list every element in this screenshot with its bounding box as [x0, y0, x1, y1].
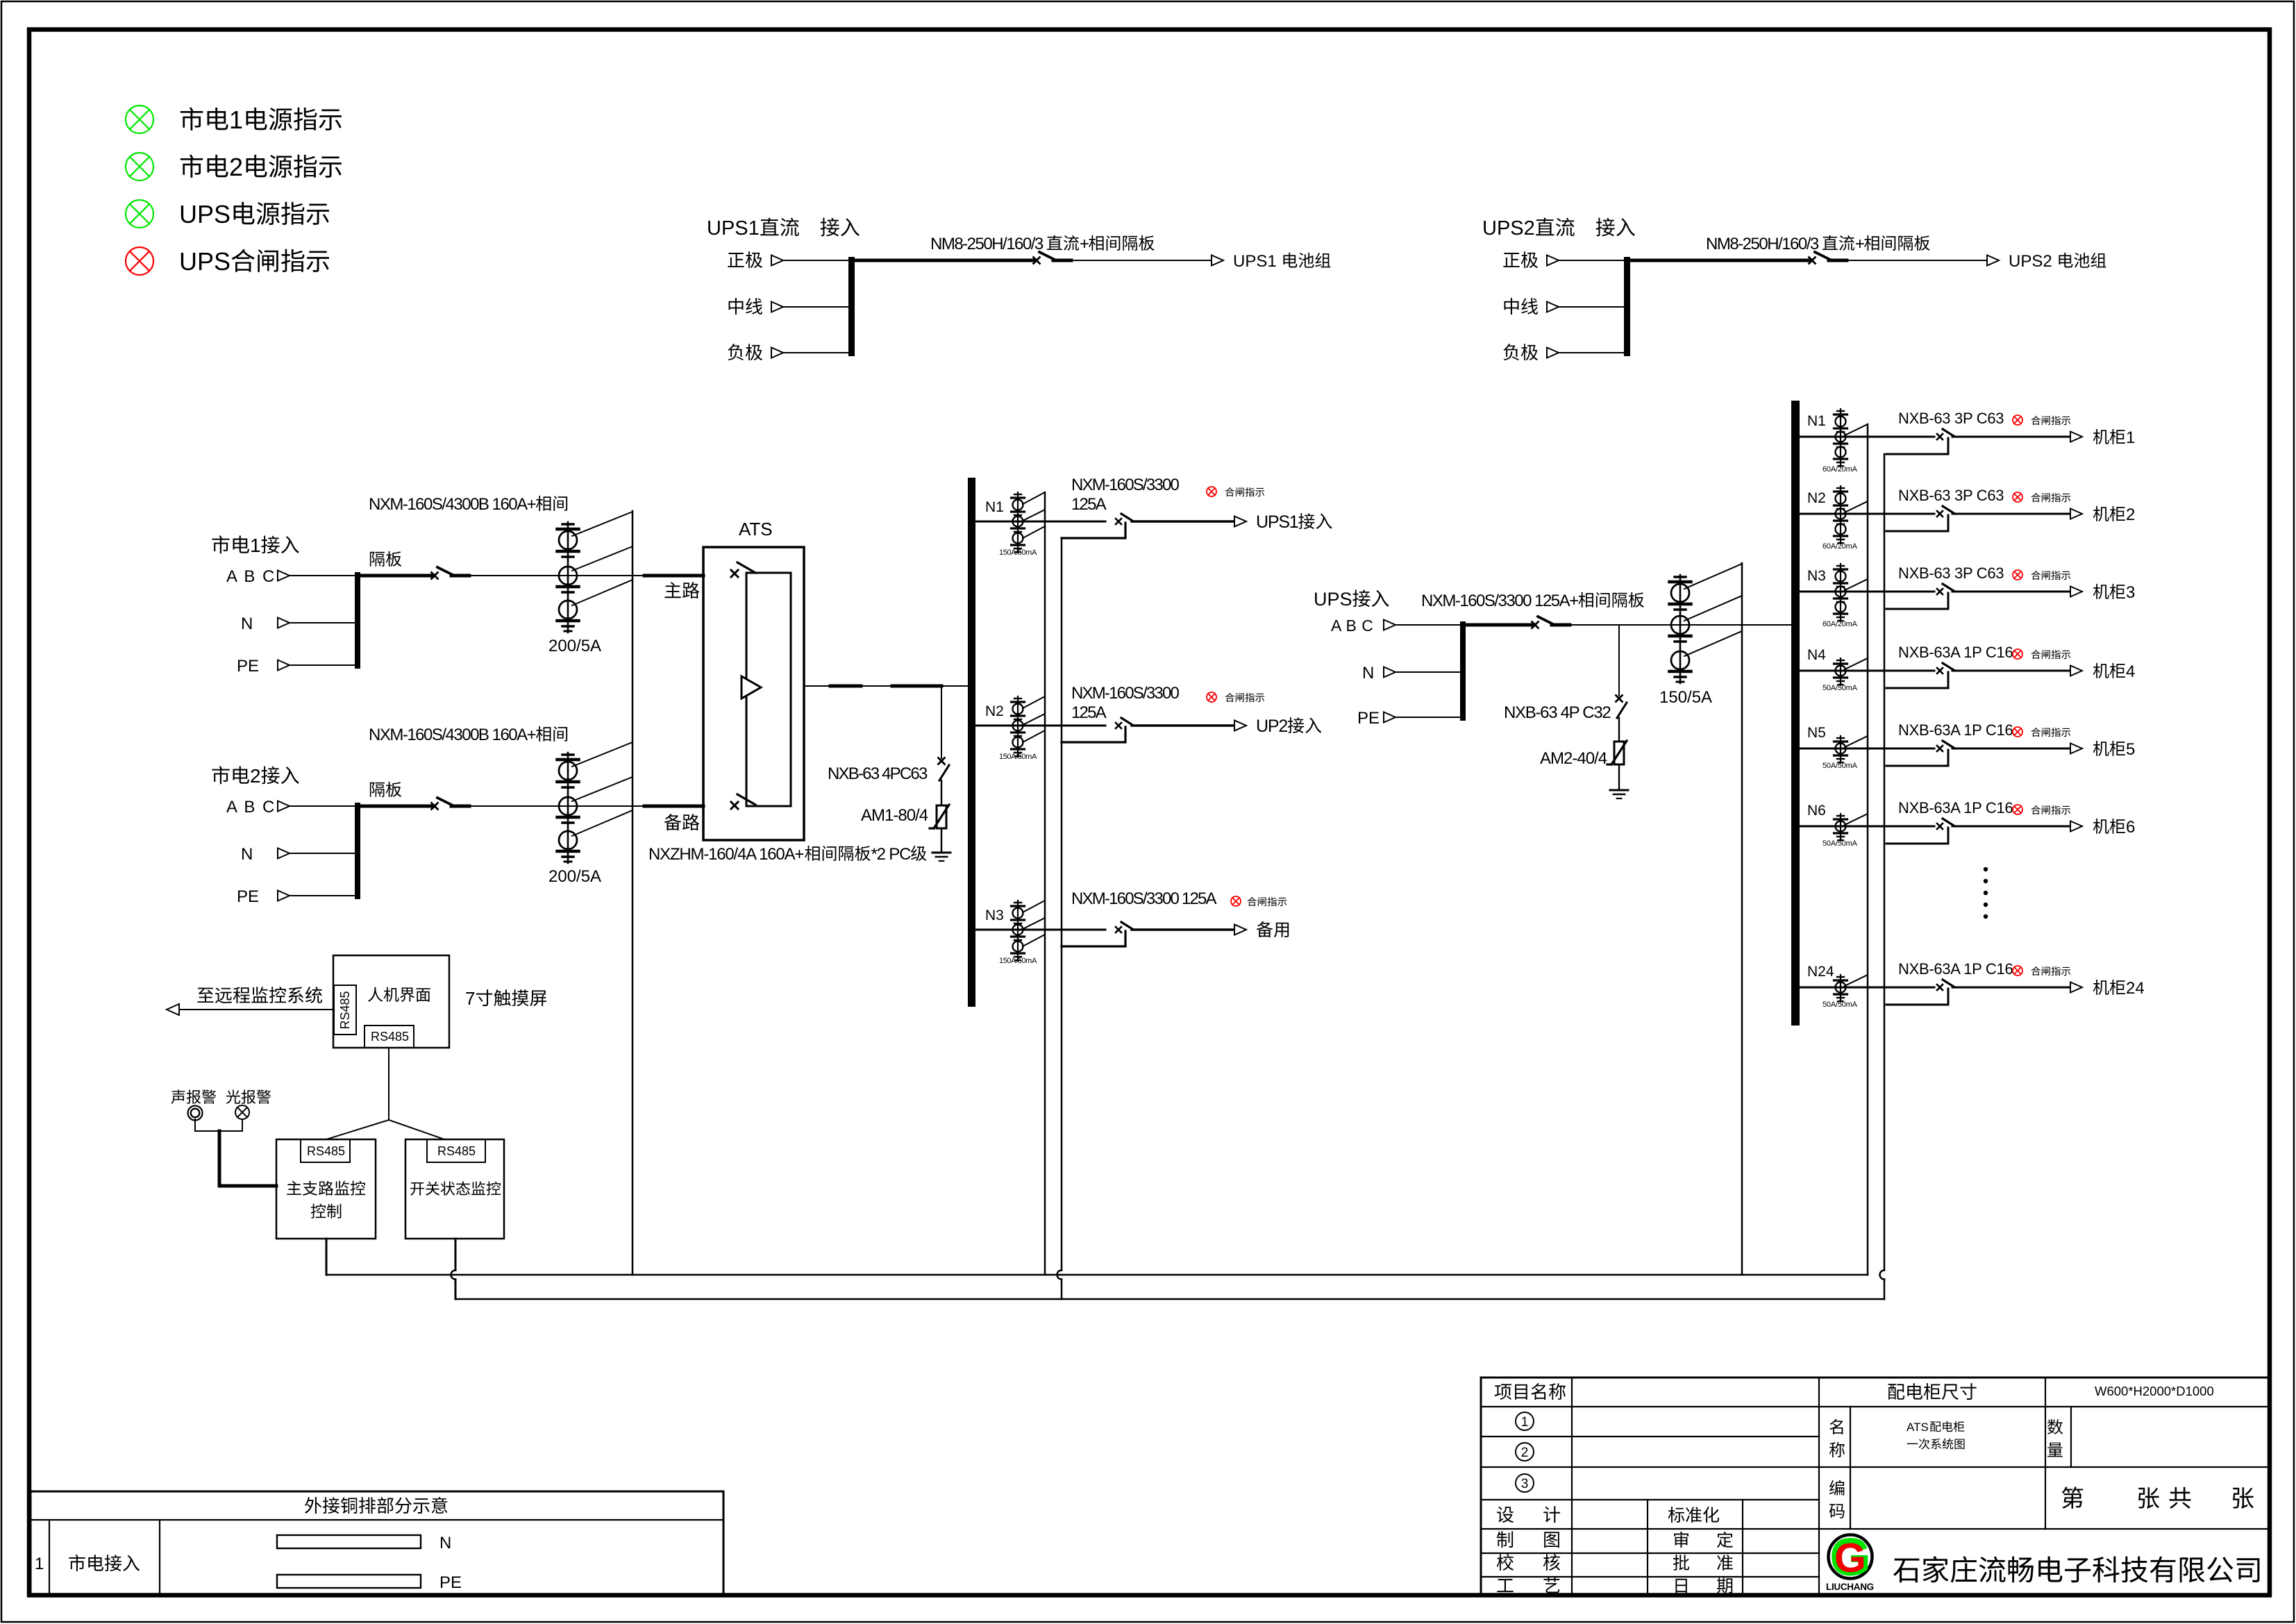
label 机柜4	[2093, 662, 2136, 681]
svg-text:NXB-63 4P C32: NXB-63 4P C32	[1504, 703, 1611, 722]
indicator 合闸指示 (N3, red)	[2013, 570, 2022, 580]
phase riser diagonals	[572, 512, 632, 605]
label NXM-160S/3300 125A (N3)	[1071, 889, 1217, 908]
svg-text:UPS1: UPS1	[1233, 252, 1277, 271]
svg-text:UPS2: UPS2	[2009, 252, 2052, 271]
label 150/5A	[1659, 688, 1712, 707]
label 市电2电源指示	[181, 153, 342, 181]
label 50A/50mA	[1822, 762, 1858, 770]
label 合闸指示	[1225, 693, 1265, 702]
svg-text:1: 1	[229, 106, 243, 134]
svg-text:1: 1	[2126, 428, 2135, 447]
wire riser (switch status)	[1057, 538, 1062, 1299]
svg-text:A B C: A B C	[226, 567, 276, 586]
table 外接铜排部分示意	[31, 1491, 723, 1594]
svg-text:5: 5	[2126, 740, 2135, 759]
breaker NXB-63A 1P C16 (N6)	[1937, 819, 1954, 829]
busbar UPS2 DC	[1624, 257, 1630, 356]
svg-text:N24: N24	[1807, 964, 1834, 980]
svg-text:NXB-63 4PC63: NXB-63 4PC63	[828, 764, 928, 783]
node N5	[1807, 725, 1826, 741]
label 校核	[1497, 1554, 1560, 1571]
wire	[1952, 826, 2070, 828]
terminal A B C	[226, 567, 290, 586]
wire (thick feeder)	[360, 574, 433, 578]
svg-text:50A/50mA: 50A/50mA	[1822, 1001, 1858, 1009]
label 市电1电源指示	[181, 106, 342, 134]
label AM1-80/4	[861, 806, 928, 825]
svg-text:NXZHM-160/4A 160A+: NXZHM-160/4A 160A+	[648, 845, 803, 864]
wire (status sense elbow)	[1886, 989, 1948, 1005]
svg-text:NXB-63 3P C63: NXB-63 3P C63	[1898, 487, 2004, 504]
current transformers 200/5A (市电2)	[558, 753, 579, 863]
leakage CT 50A/50mA (N5)	[1834, 736, 1847, 763]
svg-text:24: 24	[2126, 979, 2145, 998]
svg-text:3: 3	[1521, 1477, 1529, 1491]
wire	[1132, 928, 1234, 930]
wire	[1618, 625, 1620, 696]
label NXM-160S/4300B 160A+相间隔板	[369, 495, 567, 567]
wire	[975, 725, 1105, 727]
phase diagonals	[1023, 901, 1045, 946]
label NXZHM-160/4A 160A+相间隔板*2 PC级	[648, 845, 926, 864]
terminal PE	[237, 887, 290, 906]
wire alarm feeder (thick)	[219, 1131, 276, 1186]
leakage CT 50A/50mA (N4)	[1834, 658, 1847, 685]
svg-text:N: N	[241, 614, 253, 633]
svg-text:N3: N3	[1807, 568, 1826, 584]
label NXM-160S/3300 125A (N2)	[1071, 684, 1179, 722]
wire	[941, 780, 942, 805]
label NXM-160S/3300 125A (N1)	[1071, 476, 1179, 514]
label 设计	[1497, 1506, 1560, 1523]
port RS485 (left)	[334, 985, 356, 1035]
svg-text:NXM-160S/3300 125A: NXM-160S/3300 125A	[1071, 889, 1217, 908]
wire	[1618, 718, 1620, 742]
sounder symbol	[188, 1106, 203, 1121]
svg-text:60A/20mA: 60A/20mA	[1822, 620, 1858, 628]
label NXM-160S/3300 125A+相间隔板	[1421, 592, 1644, 610]
label 备用	[1257, 921, 1289, 937]
terminal N (UPS)	[1362, 664, 1396, 683]
label 工艺	[1497, 1577, 1559, 1593]
arrow 备用	[1234, 925, 1246, 935]
breaker NXM-160S/3300 125A (UPS main)	[1532, 617, 1570, 628]
node N1	[1807, 413, 1826, 429]
wire	[1952, 748, 2070, 750]
wire riser (UPS CT sense)	[1741, 563, 1743, 1275]
svg-text:ATS: ATS	[1907, 1421, 1929, 1434]
arrow 机柜1	[2070, 432, 2082, 442]
svg-text:1: 1	[35, 1555, 44, 1573]
node N4	[1807, 647, 1826, 663]
wire	[1952, 670, 2070, 672]
label ATS配电柜 一次系统图	[1907, 1421, 1965, 1449]
svg-text:N: N	[439, 1534, 451, 1552]
wire 主路/备路 feeder to ATS	[644, 574, 703, 578]
svg-text:NXM-160S/3300: NXM-160S/3300	[1071, 476, 1179, 494]
wire	[290, 575, 355, 576]
phase diagonal	[1845, 424, 1868, 435]
wire	[179, 1009, 333, 1010]
label UPS1直流 接入	[707, 217, 860, 240]
svg-text:*2 PC: *2 PC	[871, 845, 912, 864]
label UPS2直流 接入	[1482, 217, 1635, 240]
wire	[975, 521, 1105, 523]
svg-text:50A/50mA: 50A/50mA	[1822, 762, 1858, 770]
wire (thick feeder)	[360, 805, 433, 808]
label AM2-40/4	[1540, 749, 1607, 768]
svg-text:AM1-80/4: AM1-80/4	[861, 806, 928, 825]
leakage CTs 60A/20mA (N2)	[1834, 486, 1847, 544]
svg-text:150A/50mA: 150A/50mA	[999, 957, 1037, 965]
wire	[1396, 717, 1460, 718]
svg-text:UPS: UPS	[1314, 589, 1352, 610]
symbol ①	[1516, 1412, 1534, 1430]
label 备路	[664, 814, 700, 830]
ellipsis (branches N7..N23)	[1984, 867, 1988, 919]
wire	[941, 686, 942, 758]
arrow 机柜6	[2070, 821, 2082, 832]
node N1	[985, 499, 1004, 515]
breaker NXM-160S/4300B QF2	[432, 798, 470, 810]
wire (status sense elbow)	[1886, 593, 1948, 609]
indicator lamp 市电2电源指示 (green)	[126, 153, 153, 181]
svg-text:N2: N2	[985, 703, 1004, 719]
svg-text:NXB-63 3P C63: NXB-63 3P C63	[1898, 410, 2004, 427]
terminal A B C	[226, 798, 290, 817]
wire	[469, 575, 644, 576]
wire	[783, 306, 848, 308]
HMI box 人机界面	[333, 955, 449, 1048]
terminal 正极	[1503, 251, 1559, 268]
label UPS电源指示	[179, 200, 329, 228]
surge arrester AM2-40/4	[1607, 741, 1627, 764]
label UPS2 电池组	[2009, 252, 2106, 271]
wire	[1845, 260, 1988, 261]
label 市电2接入	[212, 765, 299, 787]
terminal PE	[237, 657, 290, 676]
wire	[783, 352, 848, 353]
ATS direction triangle	[741, 676, 761, 698]
breaker NXM-160S/3300 125A (N1)	[1116, 514, 1132, 524]
label UPS1接入	[1256, 512, 1332, 532]
label 7寸触摸屏	[465, 988, 546, 1009]
svg-text:60A/20mA: 60A/20mA	[1822, 542, 1858, 551]
wire	[1952, 513, 2070, 515]
indicator 合闸指示 (N1, red)	[1207, 487, 1216, 496]
label 合闸指示	[2031, 493, 2071, 502]
node N3	[985, 907, 1004, 923]
wire	[1952, 436, 2070, 438]
breaker NXB-63A 1P C16 (N4)	[1937, 663, 1954, 673]
breaker NXM-160S/3300 125A (N3)	[1116, 922, 1132, 932]
svg-text:UPS: UPS	[179, 247, 231, 276]
label 150A/50mA	[999, 753, 1037, 761]
svg-text:NXB-63A 1P C16: NXB-63A 1P C16	[1898, 644, 2013, 661]
indicator 合闸指示 (N1, red)	[2013, 415, 2022, 425]
wire	[1559, 352, 1624, 353]
label 合闸指示	[2031, 650, 2071, 659]
wire riser (right switch status)	[1880, 454, 1884, 1299]
wire (status sense elbow)	[1062, 931, 1125, 946]
wire	[1952, 591, 2070, 593]
label 标准化	[1668, 1507, 1719, 1523]
svg-text:+: +	[1855, 235, 1864, 253]
arrow 机柜2	[2070, 509, 2082, 519]
label 日期	[1675, 1577, 1732, 1593]
svg-text:60A/20mA: 60A/20mA	[1822, 465, 1858, 474]
node N2	[985, 703, 1004, 719]
label NXB-63 3P C63	[1898, 564, 2004, 582]
svg-text:RS485: RS485	[371, 1030, 409, 1044]
svg-text:NM8-250H/160/3: NM8-250H/160/3	[1706, 235, 1819, 253]
breaker NM8-250H/160/3 (UPS1)	[1034, 252, 1072, 264]
label NXB-63A 1P C16	[1898, 721, 2013, 739]
leakage CTs 60A/20mA (N3)	[1834, 564, 1847, 621]
svg-text:2: 2	[1521, 1446, 1529, 1460]
terminal 负极	[728, 344, 783, 360]
wire (status sense elbow)	[1886, 750, 1948, 766]
label 200/5A	[548, 637, 601, 655]
svg-text:1: 1	[1521, 1415, 1529, 1430]
wire fork	[326, 1120, 444, 1139]
label UPS接入	[1314, 589, 1389, 610]
wire	[1800, 591, 1934, 593]
svg-text:N1: N1	[985, 499, 1004, 515]
leakage CTs 150A/50mA (N1)	[1012, 492, 1025, 553]
svg-text:200/5A: 200/5A	[548, 637, 601, 655]
breaker NM8-250H/160/3 (UPS2)	[1809, 252, 1847, 264]
terminal 中线	[729, 298, 783, 315]
arrow to UPS1 电池组	[1212, 256, 1223, 266]
label 配电柜尺寸	[1888, 1383, 1976, 1400]
wire	[290, 853, 355, 854]
svg-text:N4: N4	[1807, 647, 1826, 663]
symbol ③	[1516, 1474, 1534, 1492]
wire RS485 trunk	[388, 1048, 389, 1120]
svg-text:2: 2	[229, 153, 243, 181]
label 编码	[1829, 1480, 1845, 1518]
svg-text:NXM-160S/3300: NXM-160S/3300	[1071, 684, 1179, 703]
label 合闸指示	[2031, 416, 2071, 425]
leakage CTs 60A/20mA (N1)	[1834, 409, 1847, 467]
wire	[290, 895, 355, 896]
svg-text:125A: 125A	[1071, 495, 1107, 514]
wire	[326, 1239, 328, 1275]
leakage CT 50A/50mA (N6)	[1834, 814, 1847, 841]
svg-text:N: N	[1362, 664, 1374, 683]
phase diagonal	[1845, 501, 1868, 512]
current transformers 200/5A (市电1)	[558, 522, 579, 633]
svg-text:A B C: A B C	[226, 798, 276, 817]
label 150A/50mA	[999, 957, 1037, 965]
indicator 合闸指示 (N5, red)	[2013, 727, 2022, 737]
terminal 正极	[728, 251, 783, 268]
svg-text:150A/50mA: 150A/50mA	[999, 549, 1037, 557]
node N2	[1807, 490, 1826, 506]
port RS485 (主支路)	[301, 1139, 350, 1162]
svg-text:G: G	[1834, 1535, 1866, 1581]
wire alarm	[195, 1119, 242, 1131]
indicator 合闸指示 (N24, red)	[2013, 966, 2022, 976]
phase riser diagonals (UPS)	[1684, 564, 1742, 656]
label 项目名称	[1495, 1383, 1566, 1400]
wire	[1800, 826, 1934, 828]
busbar 市电2	[355, 803, 360, 899]
wire (thick feeder)	[855, 259, 1035, 262]
label 声报警	[171, 1089, 217, 1103]
wire	[1800, 748, 1934, 750]
label 机柜2	[2093, 505, 2136, 524]
svg-text:W600*H2000*D1000: W600*H2000*D1000	[2095, 1384, 2214, 1398]
label 审定	[1674, 1532, 1733, 1548]
phase diagonal	[1845, 658, 1868, 669]
label NXB-63 3P C63	[1898, 487, 2004, 504]
arrow UP2接入	[1234, 721, 1246, 731]
wire	[1132, 724, 1234, 726]
wire riser (CT sense)	[1044, 492, 1046, 1275]
arrow to UPS2 电池组	[1987, 256, 1999, 266]
svg-text:200/5A: 200/5A	[548, 867, 601, 886]
busbar 市电1	[355, 572, 360, 669]
svg-text:50A/50mA: 50A/50mA	[1822, 839, 1858, 848]
terminal 中线	[1505, 298, 1559, 315]
indicator lamp UPS电源指示 (green)	[126, 200, 153, 228]
wire ATS output	[804, 685, 968, 687]
wire	[783, 260, 848, 261]
copper bar PE	[277, 1573, 462, 1592]
node N6	[1807, 803, 1826, 819]
svg-text:N1: N1	[1807, 413, 1826, 429]
wire riser (market power collection)	[632, 511, 634, 1275]
port RS485 (bottom)	[364, 1026, 414, 1048]
label 数量	[2047, 1419, 2063, 1457]
svg-text:NXB-63 3P C63: NXB-63 3P C63	[1898, 564, 2004, 582]
symbol ②	[1516, 1443, 1534, 1461]
wire	[290, 664, 355, 666]
label 主路	[664, 582, 699, 598]
busbar (UPS distribution)	[1791, 401, 1800, 1026]
wire	[451, 1239, 456, 1299]
label NXM-160S/4300B 160A+相间隔板	[369, 726, 567, 797]
phase riser diagonals	[572, 742, 632, 836]
svg-text:PE: PE	[439, 1573, 462, 1592]
svg-text:N2: N2	[1807, 490, 1826, 506]
label NM8-250H/160/3 直流+相间隔板	[930, 235, 1155, 253]
label NXB-63 4PC63	[828, 764, 928, 783]
label 150A/50mA	[999, 549, 1037, 557]
wire	[290, 622, 355, 623]
terminal N	[241, 845, 290, 864]
label 合闸指示	[2031, 728, 2071, 737]
svg-text:1: 1	[250, 535, 261, 556]
svg-text:50A/50mA: 50A/50mA	[1822, 684, 1858, 692]
wire (status sense elbow)	[1886, 828, 1948, 844]
indicator 合闸指示 (N6, red)	[2013, 805, 2022, 814]
indicator 合闸指示 (N4, red)	[2013, 649, 2022, 659]
svg-text:NXB-63A 1P C16: NXB-63A 1P C16	[1898, 960, 2013, 978]
monitor box 主支路监控控制	[276, 1139, 376, 1239]
svg-text:2: 2	[250, 765, 261, 787]
wire	[941, 828, 942, 852]
svg-text:UPS: UPS	[179, 200, 231, 228]
label 机柜3	[2093, 583, 2136, 602]
svg-text:ATS: ATS	[739, 519, 773, 539]
wire riser (right CT sense)	[1867, 424, 1869, 1275]
svg-text:6: 6	[2126, 818, 2135, 837]
svg-text:N3: N3	[985, 907, 1004, 923]
phase diagonal	[1845, 975, 1868, 986]
arrow 机柜4	[2070, 666, 2082, 676]
label 200/5A	[548, 867, 601, 886]
arrow UPS1接入	[1234, 517, 1246, 527]
node N24	[1807, 964, 1834, 980]
wire	[1570, 624, 1791, 626]
leakage CTs 150A/50mA (N2)	[1012, 696, 1025, 757]
ATS 主路 contact	[731, 562, 755, 577]
svg-text:7: 7	[465, 988, 475, 1009]
svg-text:RS485: RS485	[307, 1144, 345, 1158]
wire (status sense elbow)	[1886, 672, 1948, 688]
svg-text:UPS2: UPS2	[1482, 217, 1535, 240]
svg-text:+: +	[1080, 235, 1089, 253]
breaker NXB-63A 1P C16 (N5)	[1937, 741, 1954, 751]
label 50A/50mA	[1822, 1001, 1858, 1009]
label UPS合闸指示	[179, 247, 329, 276]
wire	[1559, 260, 1624, 261]
label 机柜5	[2093, 740, 2136, 759]
wire	[1618, 764, 1620, 789]
label 合闸指示	[2031, 571, 2071, 580]
ATS box	[703, 519, 804, 840]
svg-text:NXM-160S/4300B 160A+: NXM-160S/4300B 160A+	[369, 495, 536, 514]
wire (thick feeder)	[1466, 623, 1534, 627]
leakage CT 50A/50mA (N24)	[1834, 975, 1847, 1002]
breaker NXB-63A 1P C16 (N24)	[1937, 980, 1954, 990]
label 批准	[1673, 1555, 1733, 1571]
wire	[1952, 987, 2070, 989]
arrow to remote monitoring	[167, 1004, 179, 1015]
svg-text:2: 2	[2126, 505, 2135, 524]
svg-text:AM2-40/4: AM2-40/4	[1540, 749, 1607, 768]
svg-text:NXM-160S/3300 125A+: NXM-160S/3300 125A+	[1421, 592, 1578, 610]
indicator 合闸指示 (N3, red)	[1231, 896, 1241, 906]
wire	[1800, 987, 1934, 989]
label 机柜24	[2093, 979, 2145, 998]
phase diagonal	[1845, 579, 1868, 590]
terminal PE (UPS)	[1357, 709, 1396, 728]
label 名称	[1829, 1419, 1845, 1457]
label 合闸指示	[2031, 966, 2071, 976]
ATS inner mechanism	[746, 573, 791, 806]
terminal 负极	[1503, 344, 1559, 360]
wire	[469, 805, 644, 807]
wire	[1800, 670, 1934, 672]
breaker NXB-63 3P C63 (N1)	[1937, 429, 1954, 440]
label 至远程监控系统	[197, 987, 322, 1003]
label NXB-63 3P C63	[1898, 410, 2004, 427]
svg-text:3: 3	[2126, 583, 2135, 602]
label 合闸指示	[1225, 487, 1265, 496]
wire 主路/备路 feeder to ATS	[644, 805, 703, 808]
indicator 合闸指示 (N2, red)	[1207, 692, 1216, 702]
copper bar N	[277, 1534, 451, 1552]
wire	[1800, 436, 1934, 438]
indicator lamp UPS合闸指示 (red)	[126, 247, 153, 275]
wire	[1396, 624, 1460, 626]
wire	[1800, 513, 1934, 515]
